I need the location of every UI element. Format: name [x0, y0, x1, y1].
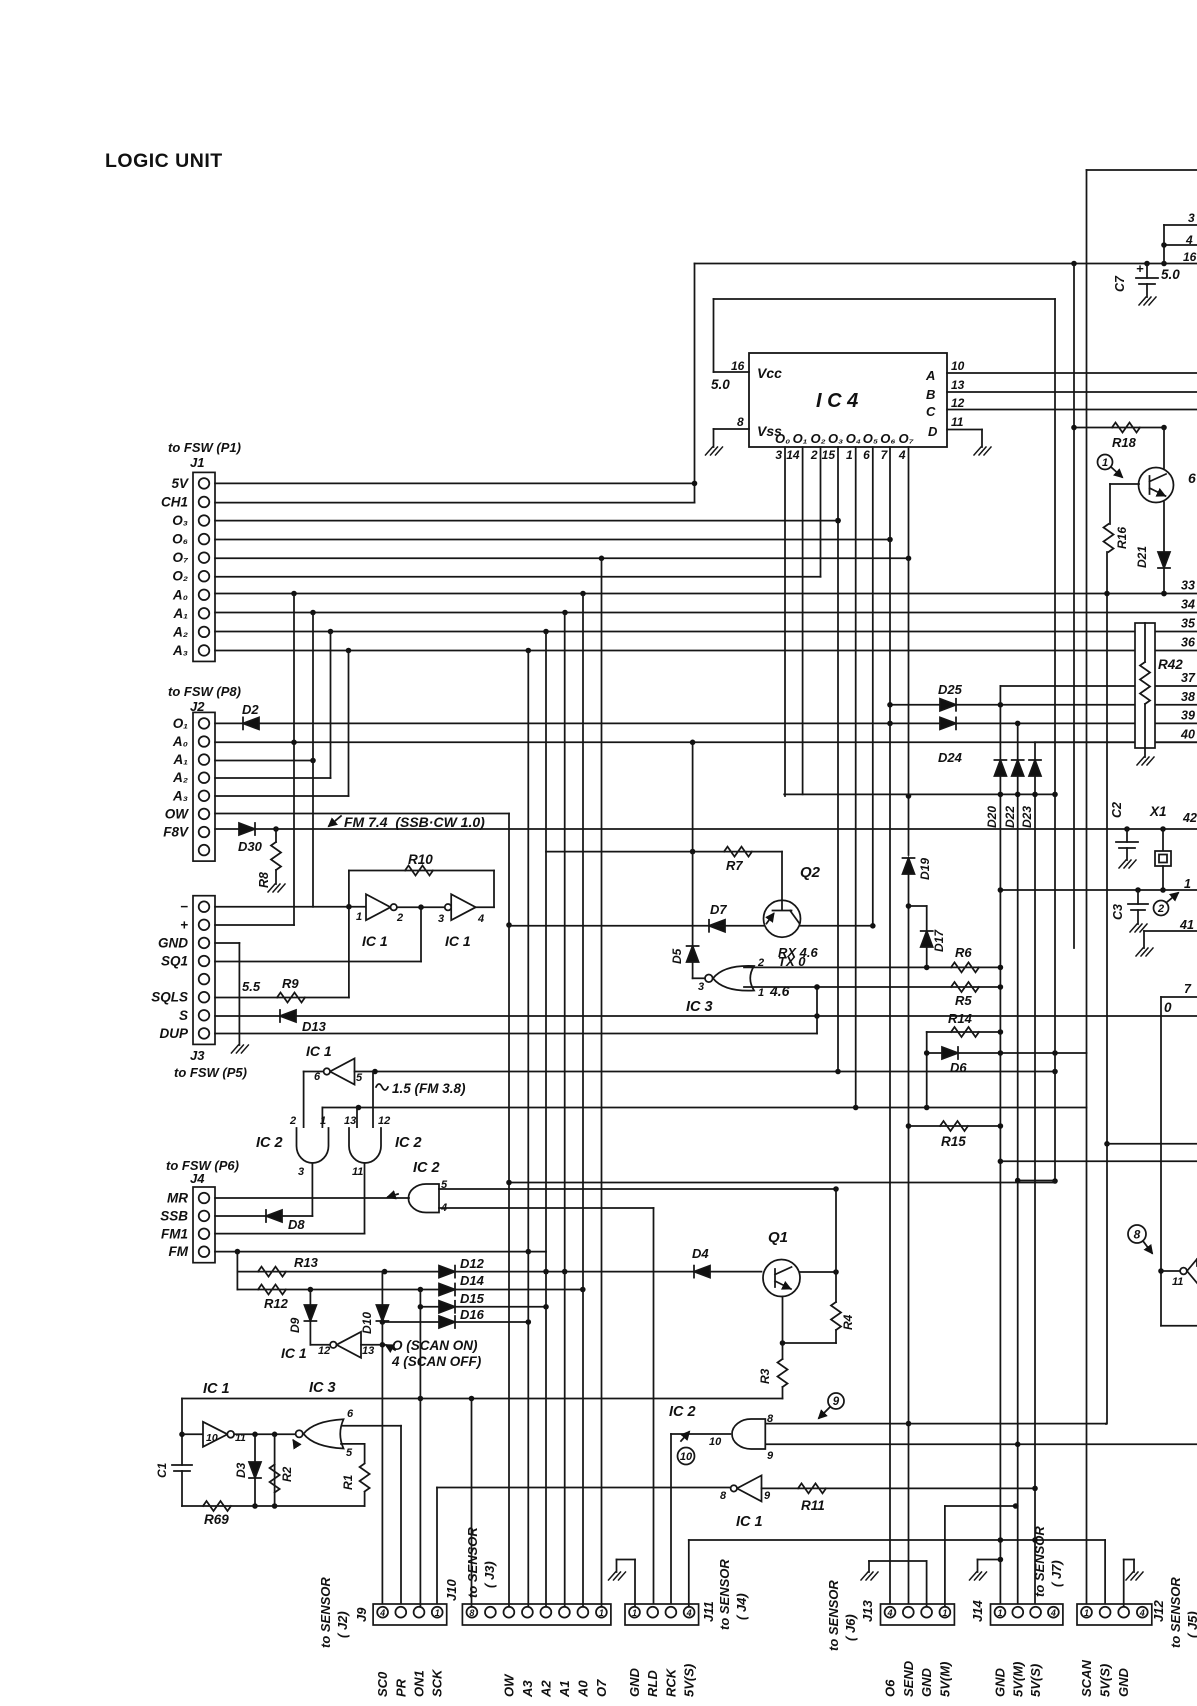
svg-text:13: 13 — [362, 1345, 374, 1357]
svg-text:3: 3 — [438, 913, 444, 925]
svg-text:5.5: 5.5 — [242, 979, 261, 994]
svg-text:8: 8 — [469, 1608, 474, 1618]
svg-text:5.0: 5.0 — [1161, 267, 1180, 282]
svg-text:Vcc: Vcc — [757, 365, 782, 381]
svg-text:SEND: SEND — [901, 1660, 916, 1697]
svg-text:Q2: Q2 — [800, 864, 821, 881]
svg-text:R5: R5 — [955, 993, 972, 1008]
svg-text:1: 1 — [320, 1115, 326, 1127]
svg-text:D10: D10 — [360, 1312, 374, 1334]
svg-text:A₁: A₁ — [172, 752, 188, 767]
svg-text:IC 1: IC 1 — [362, 933, 388, 949]
svg-text:13: 13 — [344, 1115, 356, 1127]
svg-text:O₄: O₄ — [846, 431, 861, 446]
svg-text:to SENSOR: to SENSOR — [1168, 1577, 1183, 1648]
svg-text:6: 6 — [347, 1408, 354, 1420]
svg-text:8: 8 — [1134, 1227, 1141, 1241]
svg-text:4: 4 — [379, 1608, 385, 1618]
svg-text:9: 9 — [767, 1450, 774, 1462]
svg-text:C3: C3 — [1111, 904, 1125, 920]
svg-text:O₃: O₃ — [828, 431, 843, 446]
svg-text:5V(M): 5V(M) — [937, 1662, 952, 1697]
svg-text:J1: J1 — [190, 455, 204, 470]
svg-text:J14: J14 — [970, 1600, 985, 1622]
svg-text:16: 16 — [1183, 250, 1197, 264]
svg-text:12: 12 — [951, 396, 965, 410]
svg-text:1: 1 — [942, 1608, 947, 1618]
svg-text:36: 36 — [1181, 636, 1196, 650]
svg-text:1: 1 — [599, 1608, 604, 1618]
svg-text:O₁: O₁ — [793, 431, 808, 446]
svg-text:10: 10 — [709, 1436, 722, 1448]
svg-text:SQLS: SQLS — [151, 990, 188, 1005]
svg-text:R16: R16 — [1115, 527, 1129, 549]
svg-text:4: 4 — [1139, 1608, 1145, 1618]
svg-text:D5: D5 — [670, 948, 684, 964]
svg-text:( J5): ( J5) — [1185, 1611, 1197, 1638]
svg-text:4: 4 — [686, 1608, 692, 1618]
svg-text:38: 38 — [1181, 690, 1195, 704]
svg-text:to FSW (P8): to FSW (P8) — [168, 684, 241, 699]
svg-text:( J6): ( J6) — [843, 1614, 858, 1641]
svg-text:R1: R1 — [341, 1474, 355, 1490]
svg-text:A₃: A₃ — [172, 788, 188, 803]
svg-text:ON1: ON1 — [412, 1670, 427, 1697]
svg-text:4: 4 — [477, 913, 484, 925]
svg-text:O₅: O₅ — [863, 431, 878, 446]
svg-text:F8V: F8V — [163, 825, 189, 840]
svg-text:SCK: SCK — [430, 1668, 445, 1697]
svg-text:GND: GND — [1116, 1668, 1131, 1698]
svg-text:( J2): ( J2) — [335, 1611, 350, 1638]
svg-text:D25: D25 — [938, 682, 963, 697]
svg-text:A₃: A₃ — [172, 643, 188, 658]
svg-text:GND: GND — [919, 1668, 934, 1698]
svg-text:D20: D20 — [985, 806, 999, 828]
svg-text:A3: A3 — [520, 1680, 535, 1698]
svg-text:3: 3 — [298, 1166, 304, 1178]
svg-text:3: 3 — [1188, 211, 1195, 225]
svg-text:OW: OW — [165, 806, 190, 821]
svg-text:5V(S): 5V(S) — [1098, 1664, 1113, 1697]
svg-text:10: 10 — [680, 1451, 693, 1463]
svg-text:0: 0 — [1164, 1000, 1172, 1015]
svg-text:IC 3: IC 3 — [309, 1380, 336, 1396]
svg-text:1: 1 — [356, 911, 362, 923]
svg-text:C7: C7 — [1113, 275, 1127, 292]
svg-text:R2: R2 — [280, 1466, 294, 1482]
svg-text:J9: J9 — [354, 1607, 369, 1622]
svg-text:to SENSOR: to SENSOR — [717, 1559, 732, 1630]
svg-text:DUP: DUP — [159, 1026, 188, 1041]
svg-text:O6: O6 — [883, 1679, 898, 1697]
svg-text:SCAN: SCAN — [1079, 1660, 1094, 1697]
svg-text:4: 4 — [1185, 233, 1193, 247]
svg-text:D16: D16 — [460, 1307, 485, 1322]
svg-text:SSB: SSB — [160, 1208, 188, 1223]
svg-text:1: 1 — [435, 1608, 440, 1618]
svg-text:4: 4 — [1050, 1608, 1056, 1618]
svg-text:RCK: RCK — [663, 1667, 678, 1697]
svg-text:D13: D13 — [302, 1019, 327, 1034]
svg-text:5.0: 5.0 — [711, 377, 730, 392]
svg-text:R10: R10 — [408, 852, 433, 867]
svg-text:11: 11 — [1172, 1276, 1183, 1288]
svg-text:LOGIC UNIT: LOGIC UNIT — [105, 150, 223, 172]
svg-text:3: 3 — [775, 448, 782, 462]
svg-text:42: 42 — [1182, 811, 1197, 825]
svg-text:O₇: O₇ — [899, 431, 914, 446]
svg-text:6: 6 — [863, 448, 870, 462]
svg-text:1: 1 — [1102, 457, 1108, 469]
svg-text:33: 33 — [1181, 579, 1195, 593]
svg-text:4.6: 4.6 — [769, 983, 790, 999]
svg-text:O₂: O₂ — [811, 431, 826, 446]
svg-text:I C 4: I C 4 — [816, 390, 858, 412]
svg-text:A: A — [925, 368, 935, 383]
svg-text:X1: X1 — [1149, 804, 1167, 819]
svg-text:A₂: A₂ — [172, 624, 188, 639]
svg-text:39: 39 — [1181, 708, 1195, 722]
svg-text:O7: O7 — [594, 1679, 609, 1697]
svg-text:GND: GND — [627, 1668, 642, 1698]
svg-text:1: 1 — [1184, 877, 1191, 891]
svg-text:IC 1: IC 1 — [203, 1381, 230, 1397]
svg-text:to SENSOR: to SENSOR — [1032, 1526, 1047, 1597]
svg-text:to SENSOR: to SENSOR — [465, 1527, 480, 1598]
svg-text:R3: R3 — [758, 1368, 772, 1384]
svg-text:+: + — [1136, 261, 1144, 276]
svg-text:J13: J13 — [860, 1600, 875, 1622]
svg-text:O₆: O₆ — [880, 431, 895, 446]
svg-text:5: 5 — [356, 1072, 363, 1084]
svg-text:A₀: A₀ — [172, 734, 188, 749]
svg-text:7: 7 — [1184, 982, 1192, 996]
svg-text:13: 13 — [951, 378, 965, 392]
svg-text:D: D — [928, 424, 938, 439]
svg-text:11: 11 — [352, 1166, 363, 1178]
svg-text:( J7): ( J7) — [1049, 1560, 1064, 1587]
svg-text:35: 35 — [1181, 617, 1196, 631]
svg-text:O₀: O₀ — [775, 431, 790, 446]
svg-text:D15: D15 — [460, 1291, 485, 1306]
svg-text:5: 5 — [346, 1447, 353, 1459]
svg-text:O₇: O₇ — [173, 550, 190, 565]
svg-text:16: 16 — [731, 359, 745, 373]
svg-text:S: S — [179, 1008, 188, 1023]
svg-text:D7: D7 — [710, 902, 727, 917]
svg-text:9: 9 — [833, 1396, 840, 1408]
svg-text:12: 12 — [318, 1345, 330, 1357]
svg-text:D4: D4 — [692, 1246, 709, 1261]
svg-text:B: B — [926, 387, 935, 402]
svg-text:SQ1: SQ1 — [161, 954, 188, 969]
svg-text:J12: J12 — [1151, 1600, 1166, 1622]
svg-text:6: 6 — [1188, 470, 1196, 486]
svg-text:A1: A1 — [557, 1680, 572, 1698]
svg-text:IC 1: IC 1 — [736, 1514, 763, 1530]
svg-text:C1: C1 — [155, 1462, 169, 1478]
svg-text:RLD: RLD — [645, 1670, 660, 1697]
svg-text:R13: R13 — [294, 1255, 319, 1270]
svg-text:5V: 5V — [171, 476, 189, 491]
svg-text:11: 11 — [951, 415, 964, 429]
svg-text:4: 4 — [898, 448, 906, 462]
svg-text:O₃: O₃ — [172, 513, 188, 528]
svg-text:2: 2 — [289, 1115, 296, 1127]
svg-text:D17: D17 — [932, 929, 946, 952]
svg-text:MR: MR — [167, 1191, 188, 1206]
svg-text:to FSW (P1): to FSW (P1) — [168, 440, 241, 455]
svg-text:37: 37 — [1181, 671, 1196, 685]
svg-text:2: 2 — [396, 912, 403, 924]
svg-text:C2: C2 — [1110, 802, 1124, 818]
svg-text:R12: R12 — [264, 1296, 289, 1311]
svg-text:D24: D24 — [938, 750, 963, 765]
svg-text:34: 34 — [1181, 598, 1195, 612]
svg-text:1: 1 — [758, 987, 764, 999]
svg-text:A2: A2 — [538, 1680, 553, 1698]
svg-text:2: 2 — [1157, 903, 1164, 915]
svg-text:15: 15 — [822, 448, 836, 462]
svg-text:CH1: CH1 — [161, 494, 188, 509]
svg-text:10: 10 — [206, 1432, 218, 1444]
svg-text:10: 10 — [951, 359, 965, 373]
svg-text:GND: GND — [993, 1668, 1008, 1698]
svg-text:O₁: O₁ — [173, 716, 189, 731]
svg-text:R11: R11 — [801, 1498, 825, 1513]
svg-text:1: 1 — [632, 1608, 637, 1618]
svg-text:FM1: FM1 — [161, 1226, 188, 1241]
svg-text:12: 12 — [378, 1115, 390, 1127]
svg-text:5V(S): 5V(S) — [1028, 1664, 1043, 1697]
svg-text:9: 9 — [764, 1490, 771, 1502]
svg-text:A₀: A₀ — [172, 587, 188, 602]
svg-text:3: 3 — [698, 981, 704, 993]
svg-text:D23: D23 — [1020, 806, 1034, 828]
svg-text:IC 1: IC 1 — [281, 1345, 307, 1361]
svg-text:IC 2: IC 2 — [669, 1404, 696, 1420]
svg-text:+: + — [180, 917, 188, 932]
svg-text:( J4): ( J4) — [734, 1593, 749, 1620]
svg-text:IC 1: IC 1 — [306, 1043, 332, 1059]
svg-text:SC0: SC0 — [375, 1671, 390, 1697]
svg-text:FM: FM — [169, 1244, 189, 1259]
svg-text:−: − — [180, 899, 188, 914]
svg-text:FM 7.4 (SSB·CW 1.0): FM 7.4 (SSB·CW 1.0) — [344, 814, 485, 830]
svg-text:4: 4 — [886, 1608, 892, 1618]
svg-text:D2: D2 — [242, 702, 259, 717]
svg-text:D14: D14 — [460, 1273, 485, 1288]
svg-text:O₆: O₆ — [172, 532, 188, 547]
svg-text:41: 41 — [1179, 918, 1194, 932]
svg-text:D6: D6 — [950, 1060, 967, 1075]
svg-text:O (SCAN ON): O (SCAN ON) — [392, 1338, 478, 1353]
svg-text:R7: R7 — [726, 858, 743, 873]
svg-text:8: 8 — [737, 415, 744, 429]
svg-text:5V(M): 5V(M) — [1010, 1662, 1025, 1697]
svg-text:4 (SCAN OFF): 4 (SCAN OFF) — [391, 1354, 482, 1369]
svg-text:IC 2: IC 2 — [395, 1135, 422, 1151]
svg-text:R15: R15 — [941, 1134, 966, 1149]
svg-text:6: 6 — [314, 1071, 321, 1083]
svg-text:to FSW (P5): to FSW (P5) — [174, 1065, 247, 1080]
svg-text:J11: J11 — [701, 1601, 716, 1622]
svg-text:D9: D9 — [288, 1317, 302, 1333]
svg-text:( J3): ( J3) — [482, 1561, 497, 1588]
svg-text:GND: GND — [158, 935, 188, 950]
svg-text:J3: J3 — [190, 1048, 205, 1063]
svg-text:R4: R4 — [841, 1314, 855, 1330]
svg-text:C: C — [926, 404, 936, 419]
svg-text:IC 2: IC 2 — [256, 1135, 283, 1151]
svg-text:2: 2 — [810, 448, 818, 462]
svg-text:A₂: A₂ — [172, 770, 188, 785]
svg-text:1: 1 — [997, 1608, 1002, 1618]
svg-text:1: 1 — [1084, 1608, 1089, 1618]
svg-text:D30: D30 — [238, 839, 263, 854]
svg-text:IC 2: IC 2 — [413, 1160, 440, 1176]
svg-text:R6: R6 — [955, 945, 972, 960]
svg-text:IC 3: IC 3 — [686, 999, 713, 1015]
svg-text:PR: PR — [393, 1678, 408, 1697]
svg-text:R18: R18 — [1112, 435, 1137, 450]
svg-text:D19: D19 — [918, 858, 932, 880]
svg-text:J4: J4 — [190, 1171, 205, 1186]
svg-text:14: 14 — [786, 448, 800, 462]
svg-text:OW: OW — [501, 1673, 516, 1697]
svg-text:8: 8 — [720, 1490, 727, 1502]
svg-text:to SENSOR: to SENSOR — [826, 1580, 841, 1651]
svg-text:D12: D12 — [460, 1256, 485, 1271]
svg-text:IC 1: IC 1 — [445, 933, 471, 949]
svg-text:R69: R69 — [204, 1512, 229, 1527]
svg-text:1.5 (FM 3.8): 1.5 (FM 3.8) — [392, 1081, 466, 1096]
svg-text:R9: R9 — [282, 976, 299, 991]
svg-text:R8: R8 — [257, 872, 271, 888]
svg-text:D8: D8 — [288, 1217, 305, 1232]
svg-text:D21: D21 — [1135, 546, 1149, 568]
svg-text:A₁: A₁ — [172, 606, 188, 621]
svg-text:D3: D3 — [234, 1462, 248, 1478]
svg-text:R14: R14 — [948, 1011, 973, 1026]
svg-text:D22: D22 — [1003, 806, 1017, 828]
svg-text:R42: R42 — [1158, 657, 1183, 672]
svg-text:Q1: Q1 — [768, 1229, 788, 1246]
svg-text:40: 40 — [1180, 727, 1195, 741]
svg-text:5V(S): 5V(S) — [682, 1664, 697, 1697]
svg-text:to SENSOR: to SENSOR — [318, 1577, 333, 1648]
svg-text:1: 1 — [846, 448, 853, 462]
svg-text:J10: J10 — [444, 1579, 459, 1601]
svg-text:A0: A0 — [575, 1680, 590, 1698]
svg-text:O₂: O₂ — [172, 569, 188, 584]
